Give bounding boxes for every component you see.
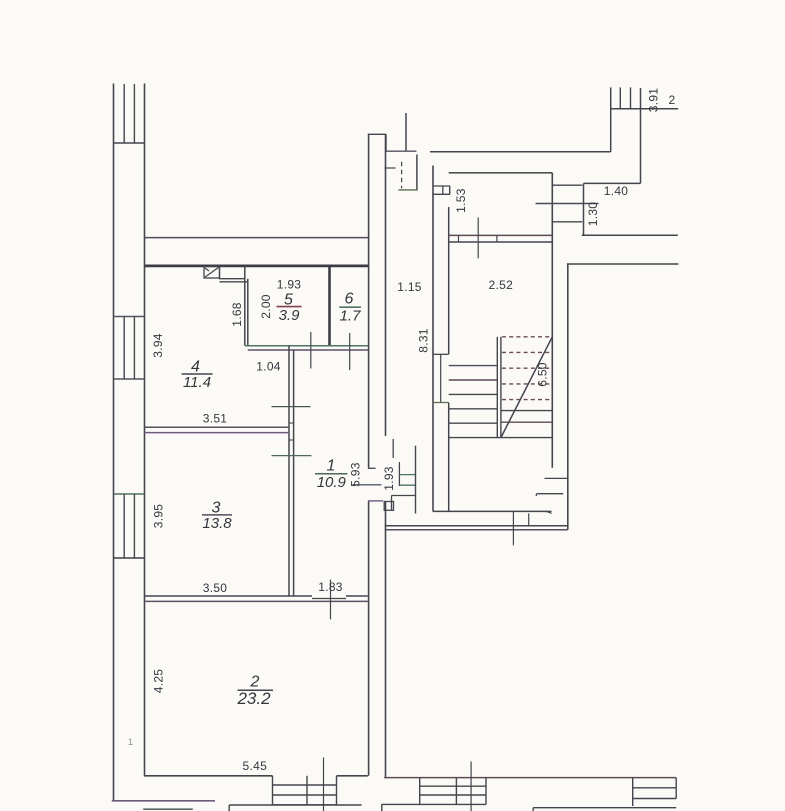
top-right hatch vertical 2 (619, 87, 621, 108)
apartment top wall (145, 264, 370, 267)
entrance dimension long tick (352, 484, 381, 486)
window W2 room3 sill bottom (114, 557, 145, 559)
landing H window line b (432, 193, 450, 195)
svg-text:2.00: 2.00 (259, 294, 273, 319)
vent shaft box K (204, 267, 220, 279)
corridor left wall lower segment (385, 501, 387, 778)
small threshold box (384, 502, 393, 511)
corridor bottom wall lower line (385, 529, 568, 531)
entrance door tick lower (368, 500, 383, 502)
vestibule bottom line (398, 189, 417, 191)
stair right wall window mid tick (536, 203, 599, 205)
window W1 glazing line 2 (133, 317, 135, 380)
apartment right wall upper segment (368, 134, 370, 468)
bottom-right window left vertical (632, 778, 634, 806)
stair dashed step D4 (502, 383, 552, 385)
stair dashed step D1 (502, 336, 552, 338)
vent shaft diagonal (205, 268, 219, 278)
corridor lower door jamb (391, 496, 393, 511)
lower window bottom line (382, 803, 487, 805)
bottom window room2 line a (273, 784, 337, 786)
svg-text:10.9: 10.9 (317, 474, 347, 491)
door leaf stub (392, 439, 394, 458)
svg-text:2: 2 (669, 93, 676, 107)
vestibule threshold line (386, 150, 416, 152)
svg-text:4.25: 4.25 (152, 669, 166, 694)
svg-text:13.8: 13.8 (202, 515, 232, 532)
stair dashed step D2 (502, 351, 552, 353)
stair bottom wall right hook (545, 511, 552, 513)
entrance door tick upper (368, 467, 376, 469)
svg-text:1.30: 1.30 (586, 202, 600, 227)
room5 left wall line b (247, 279, 249, 346)
lower window right edge (485, 778, 487, 805)
landing H window right post (449, 186, 451, 194)
svg-text:3.95: 3.95 (152, 504, 166, 529)
bottom wall inner line right of window (337, 775, 368, 777)
room 2 fraction line (238, 689, 274, 691)
landing divider b (496, 235, 498, 242)
stair step L1 (449, 365, 498, 367)
vestibule inner left wall (385, 134, 387, 152)
svg-text:1.40: 1.40 (604, 184, 629, 198)
svg-text:5.93: 5.93 (349, 462, 363, 487)
wall room4|room1 line b (293, 350, 295, 596)
wall room4|room3 upper line (145, 426, 290, 428)
lower building top line (384, 777, 676, 779)
lower window line b (420, 794, 486, 796)
svg-text:6: 6 (345, 290, 354, 307)
step wall 1.40 horizontal (584, 182, 641, 184)
bottom window room2 left edge (272, 776, 274, 805)
svg-text:1: 1 (128, 737, 133, 747)
svg-text:4: 4 (191, 359, 200, 376)
niche box right of vent (220, 267, 245, 279)
bottom window room2 dimension tick (323, 758, 325, 811)
stair block right wall (551, 173, 553, 468)
landing dimension tick (477, 217, 479, 258)
room 4 fraction line (182, 373, 213, 375)
lower window long tick (470, 761, 472, 811)
room2 door tick (330, 580, 332, 620)
stair lower door line a (545, 477, 568, 479)
stair dashed step D3 (502, 367, 552, 369)
stair block top wall (449, 172, 553, 174)
top-left wall hatch bottom line (114, 142, 145, 144)
stair right wall window top line (552, 184, 582, 186)
corridor H window left post (398, 462, 400, 486)
window W2 glazing line 2 (133, 494, 135, 558)
lowest left line (143, 808, 193, 810)
bottom window room2 divider (306, 776, 308, 805)
corridor bottom wall upper line (385, 525, 568, 527)
right wall y264 horizontal (567, 263, 679, 265)
wall room3|room2 upper line right (346, 595, 368, 597)
wall between room5 and room6 (328, 266, 331, 346)
lower right structure line (533, 807, 676, 809)
svg-text:1.83: 1.83 (318, 580, 343, 594)
wall joint tick lower (289, 439, 294, 441)
stair dashed step D5 (502, 399, 552, 401)
svg-text:3.94: 3.94 (151, 333, 165, 358)
svg-text:3.51: 3.51 (203, 412, 228, 426)
svg-text:1.15: 1.15 (397, 280, 422, 294)
svg-text:1: 1 (327, 458, 336, 475)
lower right structure vertical (532, 808, 534, 811)
bottom exterior wall outer line (112, 800, 215, 802)
svg-text:3.50: 3.50 (203, 581, 228, 595)
stair step L3 (449, 393, 498, 395)
svg-text:5.45: 5.45 (243, 759, 268, 773)
room 5 fraction line (277, 306, 302, 308)
bottom-right window line a (633, 787, 677, 789)
upper dividing line y237 (145, 237, 370, 239)
bottom window room2 bottom line (273, 804, 337, 806)
lower window divider (455, 778, 457, 805)
bottom-right window right vertical (675, 778, 677, 799)
stair lower door line b with hook (536, 494, 563, 496)
tick crossing corridor bottom wall a (512, 512, 514, 546)
wall room3|room2 lower line (145, 600, 368, 602)
svg-text:3.91: 3.91 (647, 88, 661, 113)
top-right hatch bottom line (611, 108, 679, 110)
landing H window line a (432, 185, 450, 187)
wall joint tick upper (289, 422, 294, 424)
top-left wall hatch vertical 1 (123, 84, 125, 143)
top-left wall hatch vertical 2 (133, 84, 135, 143)
bottom window room2 right edge (336, 776, 338, 805)
svg-text:11.4: 11.4 (183, 374, 211, 391)
top-right hatch left vertical (610, 87, 612, 151)
window W1 room4 sill top (114, 316, 145, 318)
landing divider a (458, 235, 460, 242)
stair step L4 (449, 408, 498, 410)
stair right wall window bottom line (552, 221, 582, 223)
svg-text:1.53: 1.53 (454, 188, 468, 213)
stair step R1 solid (501, 410, 552, 412)
window W1 glazing line 1 (123, 317, 125, 380)
lower left structure line (229, 804, 361, 806)
small tick on corridor wall (385, 167, 396, 169)
landing lower line (449, 241, 553, 243)
bottom wall inner line left of window (144, 775, 273, 777)
dimension tick room4 upper (272, 406, 311, 408)
stair stringer wall line a (496, 337, 498, 438)
stair left wall window top (433, 353, 449, 355)
corridor left wall upper segment (385, 134, 387, 436)
svg-text:1.7: 1.7 (340, 308, 362, 325)
svg-text:1.93: 1.93 (382, 466, 396, 491)
stair stringer wall line b (500, 337, 502, 438)
corridor stub wall right post (415, 446, 417, 514)
vestibule door leaf (405, 113, 407, 151)
right outer wall top segment line y151 (430, 151, 611, 153)
window W1 room4 sill bottom (114, 378, 145, 380)
vestibule right wall (416, 155, 418, 191)
stair left wall window mid glazing (440, 354, 442, 402)
vestibule dashed swing line (401, 162, 403, 189)
bottom window room2 line b (273, 794, 337, 796)
rooms 5/6 bottom wall lower line (248, 349, 369, 351)
stair left wall window bottom (433, 402, 449, 404)
apartment right wall lower segment (368, 501, 370, 776)
wall room4|room3 lower line (145, 432, 290, 434)
step wall 1.30 vertical (583, 183, 585, 235)
corridor H window line b (399, 484, 415, 486)
room6 door tick (349, 333, 351, 370)
stair room bottom wall (433, 510, 552, 512)
corridor lower door line (392, 495, 416, 497)
wall room3|room2 upper line left (145, 595, 313, 597)
room5 door tick (310, 332, 312, 369)
window W2 room3 sill top (114, 493, 145, 495)
svg-text:1.93: 1.93 (277, 278, 302, 292)
corridor H window line a (399, 474, 415, 476)
svg-text:3: 3 (212, 499, 221, 516)
rooms 5/6 bottom wall upper line (245, 345, 369, 347)
bottom-right window line b (633, 798, 677, 800)
svg-text:3.9: 3.9 (279, 307, 301, 324)
left exterior wall outer line (113, 84, 115, 801)
lower left structure vertical (228, 805, 230, 811)
top-right long vertical (640, 88, 642, 183)
lower window left edge (419, 778, 421, 805)
right side long vertical (567, 264, 569, 530)
vestibule top wall (368, 133, 386, 135)
left exterior wall inner line (144, 84, 146, 776)
room 6 fraction line (339, 306, 361, 308)
landing upper line (449, 234, 553, 236)
svg-text:23.2: 23.2 (236, 689, 271, 708)
right wall y235 horizontal (582, 234, 678, 236)
room5 left wall line a (244, 266, 246, 346)
window W2 glazing line 1 (123, 494, 125, 558)
stair block left wall inner upper (448, 207, 450, 354)
room2 door sill line (312, 598, 346, 600)
svg-text:1.68: 1.68 (230, 302, 244, 327)
stair step L5 (449, 422, 498, 424)
lower structure vertical mid (381, 804, 383, 811)
lower window line a (420, 785, 486, 787)
stair step L2 (449, 379, 498, 381)
tick crossing corridor bottom wall b (528, 513, 530, 526)
room 3 fraction line (202, 514, 232, 516)
svg-text:8.31: 8.31 (417, 328, 431, 353)
svg-text:1.04: 1.04 (256, 359, 281, 373)
dimension tick room4 lower (272, 455, 312, 457)
stair block left wall inner lower (448, 403, 450, 512)
niche box thick bottom edge (220, 281, 248, 283)
wall room4|room1 line a (288, 346, 290, 596)
top-right hatch vertical 3 (630, 87, 632, 108)
stair step R2 solid (501, 421, 552, 423)
room 1 fraction line (315, 473, 347, 475)
landing H window mid post (442, 186, 444, 194)
stair bottom step full line (449, 437, 553, 439)
svg-text:6.50: 6.50 (536, 362, 550, 387)
svg-text:2.52: 2.52 (489, 278, 514, 292)
stair block left wall outer (432, 166, 434, 512)
stair diagonal break line (501, 337, 552, 438)
